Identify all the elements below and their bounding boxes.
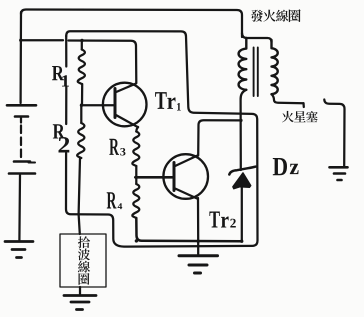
wire: R4 bottom to emitter/ground rail bbox=[136, 218, 241, 241]
wire: pickup coil bottom lead to ground bbox=[79, 287, 81, 294]
wire: R3 bottom / Tr2 base node / down to R4 bbox=[135, 166, 137, 184]
label R1 bbox=[52, 66, 64, 80]
resistor R1 bbox=[81, 41, 83, 50]
resistor R2 bbox=[80, 105, 82, 123]
wire: ring net - rail y31, down x187, across y113, down x257, back along y246, up x113, across y214, up x66 (breaks behind R1/R2 labels) bbox=[66, 31, 258, 246]
core: two lines bbox=[254, 48, 258, 97]
wire: primary bottom lead curving down bbox=[241, 90, 247, 99]
wire: Tr2 base rail bbox=[135, 176, 173, 179]
resistor R4 bbox=[132, 184, 139, 218]
pin: zener cathode bar with bent ends bbox=[229, 167, 256, 175]
pin: Tr1 collector stroke bbox=[115, 84, 136, 93]
winding: primary (4 left bumps) bbox=[239, 38, 247, 90]
pin: Tr2 collector stroke bbox=[174, 156, 198, 167]
wire: coil top bar bbox=[242, 33, 272, 42]
wire: Tr1 base node to base bbox=[81, 104, 114, 106]
pin: zener anode triangle (filled) bbox=[233, 173, 251, 189]
label R2 bbox=[53, 124, 65, 138]
wire: battery bottom lead to ground bbox=[18, 175, 21, 240]
wire: R1 bottom to Tr1 base node bbox=[81, 84, 83, 105]
label Tr2 bbox=[209, 212, 219, 228]
node: junction blobs bbox=[19, 39, 243, 243]
label R3 bbox=[109, 139, 119, 155]
label 火星塞 (spark plug) bbox=[282, 111, 318, 122]
wire: ground stub through ring to ground symbol bbox=[197, 241, 199, 254]
wire: Tr1 emitter to R3 bbox=[136, 127, 138, 132]
ground: battery ground bbox=[5, 242, 33, 258]
wire: Tr2 emitter down to ground rail bbox=[197, 198, 199, 241]
label R4 bbox=[107, 192, 117, 208]
wire: Tr2 collector riser to coil-bottom node bbox=[198, 120, 240, 155]
wire: R2 bottom down to pickup coil box (crosses ring wire) bbox=[79, 158, 80, 234]
label 拾波線圈 (pickup coil, vertical) bbox=[78, 236, 90, 285]
pin: Tr1 base bar bbox=[114, 89, 117, 118]
ground: spark plug ground bbox=[330, 167, 348, 180]
wire: coil primary bottom down to diode top bbox=[239, 99, 241, 170]
transistor Q Tr2 bbox=[163, 154, 208, 199]
ground: pickup coil ground bbox=[64, 296, 96, 310]
wire: battery dashed omitted-cells section bbox=[20, 126, 22, 158]
label 發火線圈 (ignition coil) bbox=[251, 9, 301, 22]
label Dz bbox=[273, 158, 287, 175]
wire: diode bottom to emitter/ground rail bbox=[241, 187, 243, 241]
pickup coil box bbox=[60, 234, 106, 287]
winding: secondary (5 right bumps) bbox=[272, 40, 278, 94]
pin: Tr2 emitter stroke bbox=[174, 188, 197, 199]
wire: top supply rail from battery + to ignition coil feed bbox=[21, 10, 242, 38]
electrode: spark gap left tick bbox=[302, 103, 305, 107]
resistor R3 bbox=[132, 132, 139, 167]
wire: supply branch rail y40 to R1 and Tr1 collector (hop gap at x66) bbox=[21, 40, 137, 83]
pin: Tr2 base bar bbox=[173, 163, 176, 191]
wire: secondary bottom lead to spark gap bbox=[272, 94, 304, 103]
wire: battery internal tick below second plate bbox=[20, 117, 22, 123]
wire: left vertical from top rail down to battery top bbox=[19, 12, 22, 103]
transistor Q Tr1 bbox=[103, 83, 147, 127]
wire: ring left vertical segments between label gaps bbox=[65, 36, 67, 124]
electrode: spark gap right side to ground bbox=[324, 100, 344, 167]
pin: Tr1 emitter stroke bbox=[115, 115, 138, 128]
battery B1 bbox=[7, 105, 36, 173]
ground: emitter ground bbox=[179, 256, 218, 273]
label Tr1 bbox=[155, 92, 167, 109]
